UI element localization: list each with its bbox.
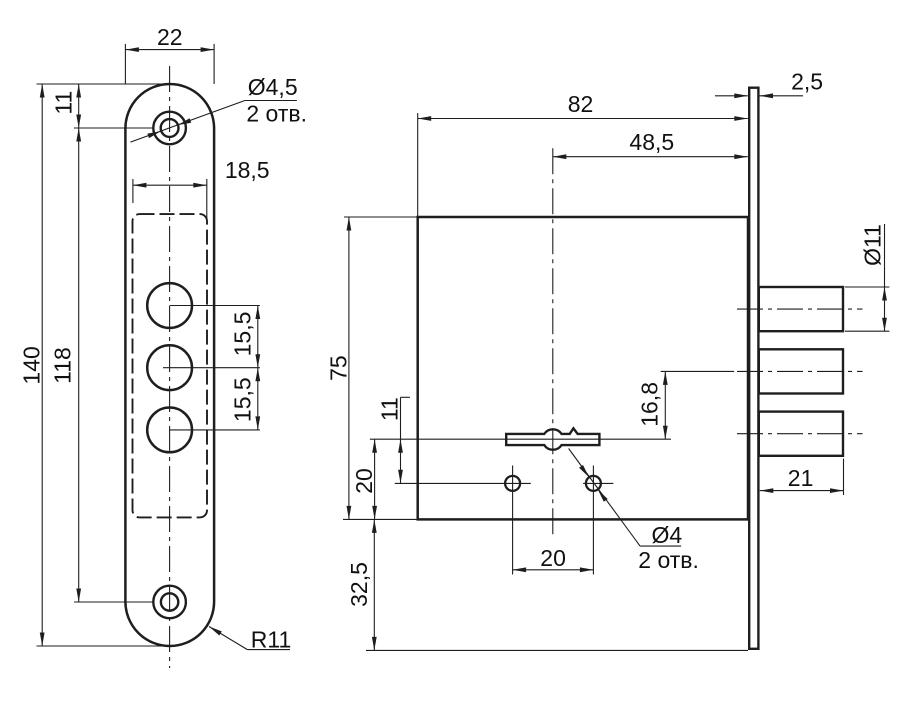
screw hole right Ø4	[586, 476, 601, 491]
svg-text:20: 20	[540, 545, 566, 571]
dimension 11 (top offset)	[51, 84, 82, 128]
extension line plate bottom	[37, 645, 170, 647]
extension line body left top	[417, 113, 419, 217]
svg-text:2 отв.: 2 отв.	[246, 101, 307, 127]
bottom screw hole Ø4,5	[161, 593, 178, 610]
keyhole horizontal centerline	[370, 438, 671, 440]
circle1 center tick	[170, 305, 260, 307]
dimension 21	[760, 459, 844, 495]
dimension 82	[418, 91, 748, 121]
leader and diameter Ø4 2 отв.	[569, 449, 699, 574]
keyhole (double-bit key slot)	[506, 428, 599, 449]
svg-text:140: 140	[18, 346, 44, 384]
extension line bottom of faceplate strip	[366, 649, 748, 651]
svg-text:48,5: 48,5	[629, 129, 674, 155]
extension line top hole center	[74, 127, 154, 129]
svg-text:18,5: 18,5	[225, 157, 270, 183]
faceplate outline (stadium 22x140)	[125, 84, 214, 646]
circle2 center tick	[163, 367, 260, 369]
bolt1 centerline	[737, 308, 863, 310]
extension line body top left	[344, 216, 418, 218]
dimension 48,5	[553, 129, 748, 159]
leader R11	[209, 627, 291, 653]
svg-text:Ø4,5: Ø4,5	[248, 74, 298, 100]
leader Ø4,5 2 отв.	[130, 74, 307, 142]
faceplate vertical centerline	[169, 66, 171, 668]
svg-text:Ø4: Ø4	[652, 522, 683, 548]
bolt2 centerline	[737, 370, 863, 372]
bolt 1	[759, 287, 843, 331]
extension line bottom hole center	[74, 601, 154, 603]
circle3 center tick	[170, 429, 260, 431]
keyhole axis vertical centerline	[552, 148, 554, 538]
bottom screw hole countersink	[153, 586, 186, 619]
bolt hole circle 2	[147, 345, 192, 390]
extension line plate top	[37, 83, 170, 85]
svg-text:82: 82	[568, 91, 594, 117]
bolt 2	[759, 349, 843, 393]
dimension 75	[326, 217, 352, 519]
top screw hole Ø4,5	[161, 119, 179, 137]
svg-text:20: 20	[351, 468, 377, 494]
screw hole left Ø4	[505, 476, 520, 491]
screw holes horizontal centerline	[395, 482, 614, 484]
svg-text:11: 11	[51, 91, 77, 115]
extension line body bottom left	[343, 518, 418, 520]
lock body outline 82x75	[418, 217, 748, 519]
dimension 16,8	[637, 371, 735, 439]
svg-text:32,5: 32,5	[346, 562, 372, 607]
svg-text:16,8: 16,8	[637, 382, 663, 427]
svg-text:2,5: 2,5	[791, 69, 823, 95]
bolt3 centerline	[737, 433, 863, 435]
bolt hole circle 1	[147, 283, 192, 328]
svg-text:22: 22	[157, 24, 183, 50]
dimension 15,5 (lower)	[230, 368, 261, 430]
dimension 32,5	[346, 519, 377, 650]
dimension 20 (between screw holes)	[513, 545, 594, 572]
faceplate side view strip 2,5 thick	[749, 88, 758, 649]
dimension 140	[18, 84, 44, 646]
dimension 118	[50, 128, 81, 602]
dimension 18,5	[133, 157, 270, 221]
svg-text:15,5: 15,5	[230, 377, 256, 422]
svg-text:Ø11: Ø11	[860, 224, 886, 266]
dimension 2,5	[715, 69, 823, 99]
dimension 15,5 (upper)	[230, 306, 261, 368]
bolt hole circle 3	[147, 408, 192, 453]
svg-text:118: 118	[50, 347, 76, 384]
svg-text:11: 11	[377, 397, 403, 421]
screw hole right vertical centerline	[592, 466, 594, 575]
svg-text:2 отв.: 2 отв.	[638, 547, 699, 573]
dimension 22	[125, 24, 214, 84]
top screw hole countersink	[153, 112, 186, 145]
hidden pocket rectangle (dashed)	[133, 214, 208, 517]
svg-text:15,5: 15,5	[230, 312, 256, 357]
dimension 20 (keyhole to body bottom)	[351, 439, 377, 519]
bolt 3	[759, 412, 843, 456]
svg-text:R11: R11	[251, 627, 292, 653]
svg-text:75: 75	[326, 355, 352, 381]
dimension 11 (keyhole to screw holes)	[377, 397, 410, 483]
svg-text:21: 21	[788, 465, 814, 491]
dimension Ø11	[845, 224, 889, 331]
screw hole left vertical centerline	[512, 466, 514, 575]
